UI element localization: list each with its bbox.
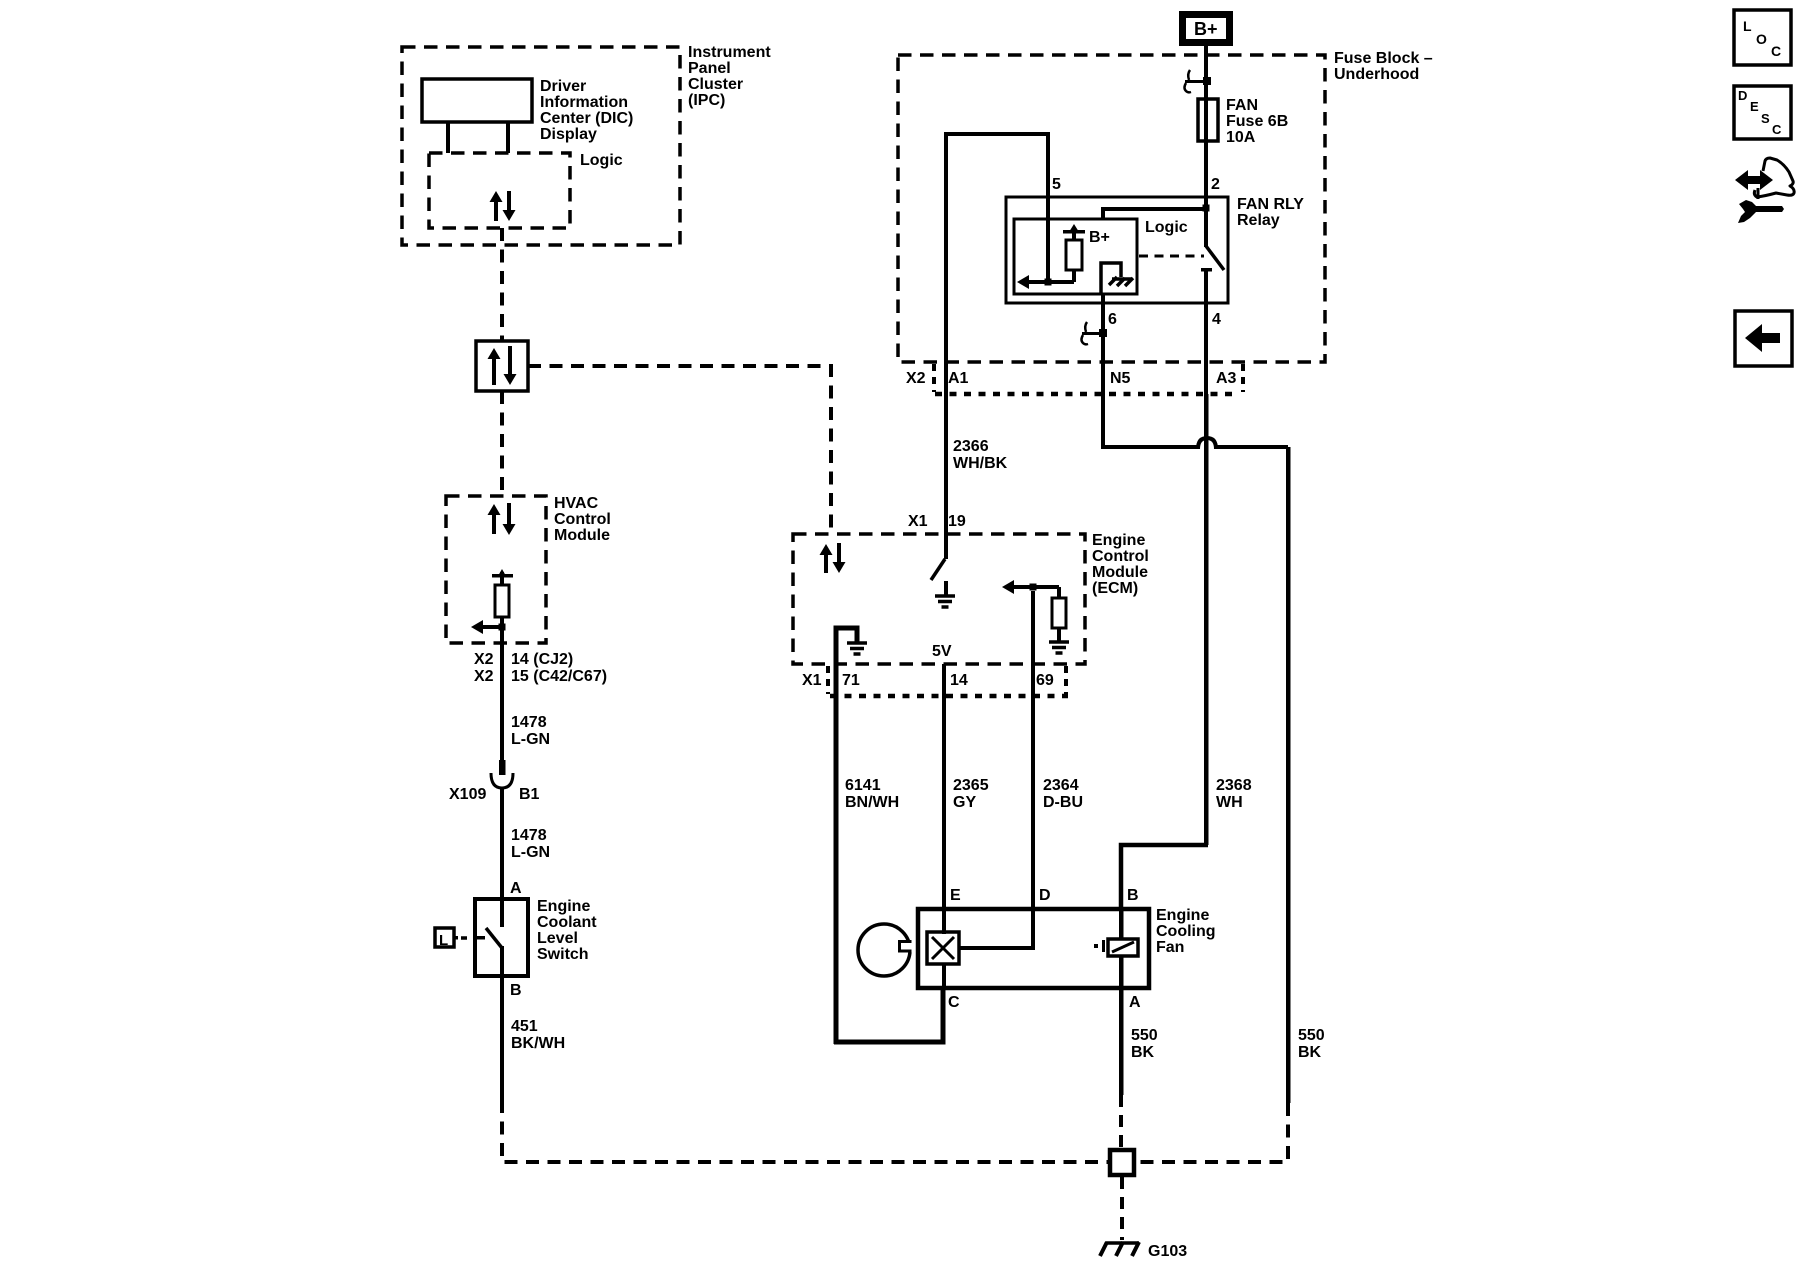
svg-text:C: C: [1771, 43, 1781, 59]
switch left stub: [475, 936, 485, 940]
svg-text:Fan: Fan: [1156, 939, 1184, 956]
clamp connector on B+ feed: [1185, 80, 1206, 83]
wire 2368 WH (A3 to fan B): [1204, 394, 1209, 845]
svg-text:HVAC: HVAC: [554, 495, 599, 512]
svg-text:Driver: Driver: [540, 78, 586, 95]
svg-text:G103: G103: [1148, 1243, 1187, 1260]
svg-text:C: C: [1772, 122, 1782, 137]
svg-text:X2: X2: [906, 370, 926, 387]
relay switch lower contact: [1201, 268, 1212, 272]
svg-text:A3: A3: [1216, 370, 1237, 387]
ground G103: [1106, 1241, 1139, 1245]
svg-text:Cooling: Cooling: [1156, 923, 1216, 940]
svg-text:2: 2: [1211, 176, 1220, 193]
relay internal ground: [1101, 263, 1121, 294]
svg-text:Center (DIC): Center (DIC): [540, 110, 633, 127]
engine coolant level switch box: [475, 899, 528, 976]
svg-text:B1: B1: [519, 786, 540, 803]
svg-text:A1: A1: [948, 370, 969, 387]
switch output lead: [500, 946, 504, 976]
fuse block underhood dashed box: [898, 55, 1325, 362]
instrument panel cluster dashed box: [402, 47, 680, 245]
svg-text:5: 5: [1052, 176, 1061, 193]
svg-text:2368: 2368: [1216, 777, 1252, 794]
svg-text:O: O: [1756, 31, 1767, 47]
svg-text:Logic: Logic: [1145, 219, 1188, 236]
relay logic inner box: [1014, 219, 1137, 294]
svg-text:B+: B+: [1089, 229, 1110, 246]
relay control dashed link: [1139, 255, 1204, 258]
HVAC pull-up terminal: [498, 569, 506, 576]
svg-text:B: B: [510, 982, 522, 999]
serial box arrows: [488, 348, 501, 385]
svg-text:(IPC): (IPC): [688, 92, 725, 109]
svg-text:2364: 2364: [1043, 777, 1079, 794]
DIC legs: [446, 122, 450, 153]
svg-text:WH: WH: [1216, 794, 1243, 811]
icon DESC box: [1734, 86, 1791, 139]
svg-text:B: B: [1127, 887, 1139, 904]
junction pin69: [1030, 584, 1037, 591]
svg-text:550: 550: [1298, 1027, 1325, 1044]
svg-text:E: E: [1750, 99, 1759, 114]
dashed wire 550 right to ground bus: [1136, 1103, 1288, 1162]
svg-text:E: E: [950, 887, 961, 904]
svg-text:Relay: Relay: [1237, 212, 1280, 229]
wire 1478 L-GN (HVAC to X109): [500, 627, 504, 760]
svg-text:550: 550: [1131, 1027, 1158, 1044]
wire 1478 L-GN (X109 to switch): [500, 788, 504, 899]
svg-text:S: S: [1761, 111, 1770, 126]
svg-text:5V: 5V: [932, 643, 952, 660]
svg-text:15 (C42/C67): 15 (C42/C67): [511, 668, 607, 685]
switch blade: [486, 928, 502, 948]
svg-text:FAN: FAN: [1226, 97, 1258, 114]
ECM resistor ground: [1049, 642, 1069, 653]
HVAC control module dashed box: [446, 496, 546, 643]
icon back-arrow box: [1735, 311, 1792, 366]
switch input lead: [500, 899, 504, 927]
svg-text:Level: Level: [537, 930, 578, 947]
junction coil/pin5: [1045, 279, 1052, 286]
svg-text:71: 71: [842, 672, 860, 689]
svg-text:Engine: Engine: [537, 898, 590, 915]
ECM low side driver switch (pin 19): [944, 534, 948, 559]
wire B+ to fuse: [1204, 46, 1208, 101]
serial data link box: [476, 341, 528, 391]
svg-text:Cluster: Cluster: [688, 76, 743, 93]
svg-text:Underhood: Underhood: [1334, 66, 1419, 83]
wire N5 to 550 BK (relay coil ground path): [1101, 394, 1105, 449]
IPC logic dashed box: [429, 153, 570, 228]
icon vehicle outline: [1754, 158, 1794, 197]
svg-text:N5: N5: [1110, 370, 1131, 387]
wire relay pin 6 to N5: [1101, 294, 1105, 394]
inline connector X109 B1: [499, 760, 506, 775]
svg-text:Information: Information: [540, 94, 628, 111]
IPC logic serial arrows: [490, 191, 503, 221]
ECM pull-up resistor: [1057, 587, 1061, 598]
wire 2365 GY (14 to fan E): [942, 664, 946, 909]
svg-text:14: 14: [950, 672, 968, 689]
svg-text:Panel: Panel: [688, 60, 731, 77]
svg-text:WH/BK: WH/BK: [953, 455, 1008, 472]
relay switch blade: [1206, 246, 1224, 270]
svg-text:Display: Display: [540, 126, 597, 143]
relay coil resistor: [1066, 240, 1082, 270]
svg-text:Module: Module: [554, 527, 610, 544]
relay coil B+ terminal: [1069, 224, 1079, 232]
ECM serial data arrows: [820, 544, 833, 573]
svg-text:D: D: [1039, 887, 1051, 904]
serial data wire to ECM (dashed L): [528, 366, 831, 534]
svg-text:Switch: Switch: [537, 946, 589, 963]
svg-text:Control: Control: [554, 511, 611, 528]
icon LOC box: [1734, 10, 1791, 65]
svg-text:2365: 2365: [953, 777, 989, 794]
wire 550 BK (fan A to ground): [1119, 988, 1124, 1095]
svg-text:BK: BK: [1131, 1044, 1155, 1061]
svg-text:4: 4: [1212, 311, 1221, 328]
svg-text:2366: 2366: [953, 438, 989, 455]
svg-text:B+: B+: [1194, 19, 1218, 39]
dashed wire fan A to junction: [1119, 1095, 1123, 1148]
svg-text:L-GN: L-GN: [511, 844, 550, 861]
wire 451 BK/WH: [500, 976, 504, 1100]
svg-text:BK: BK: [1298, 1044, 1322, 1061]
svg-text:1478: 1478: [511, 827, 547, 844]
svg-text:6: 6: [1108, 311, 1117, 328]
ECM dashed box: [793, 534, 1085, 664]
battery feed B+ box: [1183, 15, 1230, 43]
svg-text:14 (CJ2): 14 (CJ2): [511, 651, 573, 668]
wire relay pin 4 to A3: [1204, 303, 1208, 394]
junction pin2: [1203, 205, 1210, 212]
serial data wire IPC to data box: [500, 228, 504, 341]
svg-text:BN/WH: BN/WH: [845, 794, 899, 811]
svg-text:C: C: [948, 994, 960, 1011]
svg-text:X2: X2: [474, 651, 494, 668]
svg-text:D-BU: D-BU: [1043, 794, 1083, 811]
HVAC serial arrows: [488, 504, 501, 534]
ground junction box: [1110, 1150, 1134, 1175]
svg-text:10A: 10A: [1226, 129, 1256, 146]
icon double arrow: [1735, 170, 1773, 190]
svg-text:X1: X1: [802, 672, 822, 689]
wire 2366 WH/BK (A1 to ECM X1-19): [944, 362, 948, 559]
level sensor probe L box: [435, 928, 454, 947]
svg-text:X109: X109: [449, 786, 486, 803]
dashed wire 451 to ground bus: [502, 1100, 1108, 1162]
fan internal wire D to X-box: [959, 946, 1033, 950]
svg-text:Module: Module: [1092, 564, 1148, 581]
ECM switch ground: [944, 581, 948, 596]
ECM pin 71 internal ground: [836, 628, 857, 664]
svg-text:Engine: Engine: [1092, 532, 1145, 549]
svg-text:Fuse 6B: Fuse 6B: [1226, 113, 1288, 130]
relay coil output arrow to pin 5: [1026, 280, 1074, 284]
svg-text:X1: X1: [908, 513, 928, 530]
fan motor connector X-box: [942, 909, 946, 934]
clamp connector on pin6 wire: [1082, 332, 1103, 335]
icon wrench: [1738, 200, 1784, 223]
svg-text:L-GN: L-GN: [511, 731, 550, 748]
crossover hop over A3 wire: [1198, 438, 1216, 449]
fan internal relay contact: [1119, 909, 1124, 939]
svg-text:Fuse Block –: Fuse Block –: [1334, 50, 1433, 67]
svg-text:X2: X2: [474, 668, 494, 685]
svg-text:69: 69: [1036, 672, 1054, 689]
wire fuse to relay pin 2: [1204, 101, 1208, 211]
svg-text:A: A: [1129, 994, 1141, 1011]
svg-text:Instrument: Instrument: [688, 44, 771, 61]
svg-text:A: A: [510, 880, 522, 897]
fuse FAN 10A: [1198, 99, 1218, 141]
junction HVAC output: [499, 624, 506, 631]
wire 2364 D-BU (69 to fan D): [1031, 591, 1035, 909]
DIC display box: [422, 79, 532, 122]
svg-text:19: 19: [948, 513, 966, 530]
svg-text:D: D: [1738, 88, 1747, 103]
svg-text:FAN RLY: FAN RLY: [1237, 196, 1304, 213]
fan motor circle: [858, 924, 910, 976]
svg-text:BK/WH: BK/WH: [511, 1035, 565, 1052]
HVAC resistor: [495, 585, 509, 617]
svg-text:Control: Control: [1092, 548, 1149, 565]
relay switch contact from pin 2: [1204, 206, 1208, 247]
dashed wire junction to G103: [1120, 1177, 1124, 1240]
serial data wire data box to HVAC: [500, 391, 504, 496]
svg-text:Coolant: Coolant: [537, 914, 597, 931]
svg-text:Logic: Logic: [580, 152, 623, 169]
svg-text:L: L: [439, 932, 448, 949]
svg-text:451: 451: [511, 1018, 538, 1035]
HVAC output arrow: [480, 625, 504, 629]
svg-text:GY: GY: [953, 794, 976, 811]
ECM sense arrow (pin 69): [1002, 580, 1014, 594]
relay FAN RLY outer box: [1006, 197, 1228, 303]
wire relay pin5 branch (horizontal + verticals): [944, 132, 1050, 136]
svg-text:Engine: Engine: [1156, 907, 1209, 924]
wire 6141 BN/WH (71 to fan C): [834, 664, 839, 1044]
wire pin2 junction to logic box: [1101, 207, 1206, 211]
svg-text:1478: 1478: [511, 714, 547, 731]
svg-text:(ECM): (ECM): [1092, 580, 1138, 597]
svg-text:L: L: [1743, 18, 1752, 34]
engine cooling fan box: [918, 909, 1149, 988]
svg-text:6141: 6141: [845, 777, 881, 794]
